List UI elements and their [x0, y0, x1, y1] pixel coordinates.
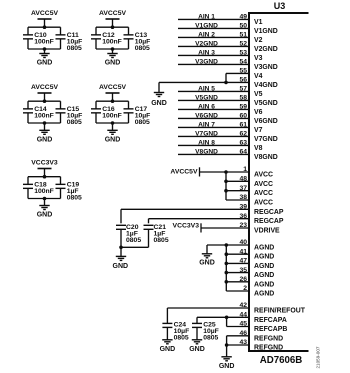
svg-text:60: 60 — [239, 113, 247, 120]
pin 43 REFGND — [227, 339, 284, 351]
pin 63 V8 — [178, 140, 263, 152]
svg-text:2: 2 — [243, 285, 247, 292]
pin 44 REFCAPA — [197, 312, 287, 324]
svg-text:100nF: 100nF — [34, 113, 54, 120]
svg-text:41: 41 — [239, 248, 247, 255]
pin 59 V6 — [178, 104, 263, 116]
ground — [105, 123, 121, 143]
power flag AVCC5V — [31, 10, 59, 27]
svg-text:35: 35 — [239, 267, 247, 274]
svg-text:V2GND: V2GND — [254, 46, 278, 53]
pin 60 V6GND — [178, 113, 278, 125]
svg-text:AIN 8: AIN 8 — [198, 140, 215, 147]
svg-text:V1GND: V1GND — [195, 23, 218, 30]
svg-text:46: 46 — [239, 330, 247, 337]
node AVCC5V supply tap — [170, 167, 249, 176]
capacitor C15 10µF 0805 — [56, 101, 83, 126]
svg-text:AIN 2: AIN 2 — [198, 32, 215, 39]
svg-text:55: 55 — [239, 68, 247, 75]
svg-text:0805: 0805 — [126, 237, 141, 244]
pin 51 V2 — [178, 32, 263, 44]
wire loop top — [28, 99, 61, 103]
pin 62 V7GND — [178, 131, 278, 143]
svg-text:43: 43 — [239, 339, 247, 346]
capacitor C16 100nF — [91, 101, 122, 123]
power flag AVCC5V — [99, 84, 127, 101]
pin 35 AGND — [239, 267, 274, 279]
svg-text:62: 62 — [239, 131, 247, 138]
svg-text:GND: GND — [219, 363, 235, 370]
pin 55 V4 — [226, 68, 263, 80]
svg-text:REFCAPB: REFCAPB — [254, 326, 287, 333]
wire loop top — [28, 175, 61, 179]
pin 37 AVCC — [239, 185, 273, 197]
capacitor C11 10µF 0805 — [56, 27, 83, 52]
svg-text:0805: 0805 — [203, 335, 218, 342]
svg-text:GND: GND — [37, 60, 53, 67]
svg-text:1: 1 — [243, 166, 247, 173]
svg-text:AVCC5V: AVCC5V — [99, 10, 127, 17]
wire loop top — [28, 25, 61, 29]
power flag VCC3V3 — [31, 160, 58, 177]
svg-text:AIN 3: AIN 3 — [198, 50, 215, 57]
wire loop bottom — [28, 197, 61, 201]
svg-text:58: 58 — [239, 95, 247, 102]
capacitor C14 100nF — [23, 101, 54, 123]
svg-text:21059-007: 21059-007 — [316, 346, 321, 368]
svg-text:56: 56 — [239, 77, 247, 84]
wire V4 to V4GND tie — [224, 73, 228, 84]
wire loop top — [96, 99, 129, 103]
svg-text:V7GND: V7GND — [254, 136, 278, 143]
pin 41 AGND — [239, 248, 274, 260]
pin 36 REGCAP — [149, 213, 284, 225]
ground for REGCAP caps — [113, 247, 129, 270]
svg-text:47: 47 — [239, 258, 247, 265]
svg-text:49: 49 — [239, 14, 247, 21]
svg-text:AIN 5: AIN 5 — [198, 86, 215, 93]
svg-text:V8: V8 — [254, 145, 263, 152]
svg-text:63: 63 — [239, 140, 247, 147]
svg-text:AGND: AGND — [254, 281, 274, 288]
svg-text:0805: 0805 — [154, 237, 169, 244]
wire AGND bus — [225, 243, 250, 291]
svg-text:GND: GND — [37, 212, 53, 219]
pin 61 V7 — [178, 122, 263, 134]
pin 1 AVCC — [243, 166, 273, 178]
capacitor C18 100nF — [23, 177, 54, 199]
wire REFGND tie — [225, 336, 229, 347]
svg-text:AVCC5V: AVCC5V — [99, 84, 127, 91]
pin 48 AVCC — [239, 176, 273, 188]
svg-text:VDRIVE: VDRIVE — [254, 228, 280, 235]
pin 45 REFCAPB — [227, 321, 288, 333]
svg-text:V7GND: V7GND — [195, 131, 218, 138]
pin 58 V5GND — [178, 95, 278, 107]
pin 23 VDRIVE — [239, 222, 280, 234]
svg-text:42: 42 — [239, 302, 247, 309]
power flag AVCC5V — [99, 10, 127, 27]
wire C20-C21 join — [119, 246, 148, 250]
svg-text:REFIN/REFOUT: REFIN/REFOUT — [254, 308, 306, 315]
svg-text:GND: GND — [151, 100, 167, 107]
svg-text:100nF: 100nF — [102, 39, 122, 46]
svg-text:0805: 0805 — [67, 195, 82, 202]
ground — [37, 49, 53, 67]
node VCC3V3 supply tap — [173, 222, 249, 232]
svg-text:45: 45 — [239, 321, 247, 328]
pin 64 V8GND — [178, 149, 278, 161]
svg-text:V1: V1 — [254, 19, 263, 26]
pin 54 V3GND — [178, 59, 278, 71]
svg-text:U3: U3 — [274, 1, 286, 11]
pin 50 V1GND — [178, 23, 278, 35]
svg-text:GND: GND — [160, 346, 176, 353]
svg-text:V2: V2 — [254, 37, 263, 44]
capacitor C17 10µF 0805 — [124, 101, 151, 126]
svg-text:50: 50 — [239, 23, 247, 30]
svg-text:GND: GND — [105, 60, 121, 67]
svg-text:AVCC: AVCC — [254, 172, 273, 179]
capacitor C13 10µF 0805 — [124, 27, 151, 52]
pin 56 V4GND — [159, 77, 278, 89]
capacitor C19 1µF 0805 — [56, 177, 83, 202]
svg-text:GND: GND — [199, 259, 215, 266]
svg-text:GND: GND — [189, 346, 205, 353]
svg-text:100nF: 100nF — [34, 188, 54, 195]
pin 26 AGND — [239, 276, 274, 288]
svg-text:AIN 1: AIN 1 — [198, 14, 215, 21]
svg-text:AIN 7: AIN 7 — [198, 122, 215, 129]
svg-text:V5: V5 — [254, 91, 263, 98]
svg-text:V8GND: V8GND — [195, 149, 218, 156]
svg-text:V3GND: V3GND — [195, 59, 218, 66]
svg-text:37: 37 — [239, 185, 247, 192]
svg-text:V8GND: V8GND — [254, 154, 278, 161]
capacitor C20 1uF 0805 — [116, 209, 141, 247]
svg-text:100nF: 100nF — [102, 113, 122, 120]
svg-text:AVCC5V: AVCC5V — [31, 10, 59, 17]
wire REFCAPA-REFCAPB tie — [225, 316, 229, 327]
svg-text:V2GND: V2GND — [195, 41, 218, 48]
svg-text:AVCC5V: AVCC5V — [31, 84, 59, 91]
svg-text:REGCAP: REGCAP — [254, 218, 284, 225]
svg-text:0805: 0805 — [67, 119, 82, 126]
svg-text:59: 59 — [239, 104, 247, 111]
svg-text:V1GND: V1GND — [254, 28, 278, 35]
svg-text:AVCC: AVCC — [254, 200, 273, 207]
svg-text:REFCAPA: REFCAPA — [254, 317, 287, 324]
capacitor C24 10uF 0805 — [162, 308, 189, 342]
svg-text:53: 53 — [239, 50, 247, 57]
pin 39 REGCAP — [121, 204, 284, 216]
svg-text:AVCC: AVCC — [254, 181, 273, 188]
svg-text:AD7606B: AD7606B — [260, 355, 303, 366]
svg-text:61: 61 — [239, 122, 247, 129]
svg-text:0805: 0805 — [135, 119, 150, 126]
svg-text:0805: 0805 — [174, 335, 189, 342]
svg-text:REFGND: REFGND — [254, 345, 283, 352]
svg-text:0805: 0805 — [67, 45, 82, 52]
svg-text:V3GND: V3GND — [254, 64, 278, 71]
svg-text:40: 40 — [239, 239, 247, 246]
svg-text:GND: GND — [105, 136, 121, 143]
power flag AVCC5V — [31, 84, 59, 101]
pin 42 REFIN/REFOUT — [167, 302, 305, 314]
ground — [37, 199, 53, 219]
wire AVCC bus — [224, 170, 249, 200]
pin 57 V5 — [178, 86, 263, 98]
pin 52 V2GND — [178, 41, 278, 53]
pin 2 AGND — [243, 285, 274, 297]
wire loop bottom — [28, 121, 61, 125]
svg-text:GND: GND — [113, 263, 129, 270]
svg-text:64: 64 — [239, 149, 247, 156]
svg-text:26: 26 — [239, 276, 247, 283]
pin 47 AGND — [239, 258, 274, 270]
svg-text:V4GND: V4GND — [254, 82, 278, 89]
svg-text:GND: GND — [37, 136, 53, 143]
svg-text:VCC3V3: VCC3V3 — [173, 222, 200, 229]
svg-text:48: 48 — [239, 176, 247, 183]
svg-text:V6GND: V6GND — [254, 118, 278, 125]
svg-text:V6GND: V6GND — [195, 113, 218, 120]
pin 46 REFGND — [227, 330, 284, 342]
op-amp U1 chip outline U3 AD7606B — [248, 13, 309, 351]
svg-text:V5GND: V5GND — [195, 95, 218, 102]
wire loop bottom — [96, 121, 129, 125]
capacitor C25 10uF 0805 — [192, 317, 219, 341]
svg-text:100nF: 100nF — [34, 39, 54, 46]
ground — [105, 49, 121, 67]
svg-text:44: 44 — [239, 312, 247, 319]
capacitor C10 100nF — [23, 27, 54, 49]
svg-text:38: 38 — [239, 194, 247, 201]
svg-text:AVCC5V: AVCC5V — [170, 169, 198, 176]
svg-text:V6: V6 — [254, 109, 263, 116]
svg-text:36: 36 — [239, 213, 247, 220]
ground for C25 — [189, 340, 205, 353]
svg-text:V3: V3 — [254, 55, 263, 62]
svg-text:AGND: AGND — [254, 254, 274, 261]
svg-text:AGND: AGND — [254, 245, 274, 252]
wire loop bottom — [96, 47, 129, 51]
wire loop top — [96, 25, 129, 29]
svg-text:VCC3V3: VCC3V3 — [31, 160, 58, 167]
svg-text:52: 52 — [239, 41, 247, 48]
ground — [37, 123, 53, 143]
svg-text:57: 57 — [239, 86, 247, 93]
ground for REFGND — [219, 345, 235, 370]
svg-text:0805: 0805 — [135, 45, 150, 52]
svg-text:39: 39 — [239, 204, 247, 211]
svg-text:AGND: AGND — [254, 291, 274, 298]
svg-text:V7: V7 — [254, 127, 263, 134]
pin 40 AGND — [239, 239, 274, 251]
svg-text:54: 54 — [239, 59, 247, 66]
svg-text:V5GND: V5GND — [254, 100, 278, 107]
svg-text:AGND: AGND — [254, 272, 274, 279]
capacitor C12 100nF — [91, 27, 122, 49]
svg-text:AIN 6: AIN 6 — [198, 104, 215, 111]
svg-text:AGND: AGND — [254, 263, 274, 270]
pin 53 V3 — [178, 50, 263, 62]
ground for V4/V4GND — [151, 82, 167, 106]
svg-text:V4: V4 — [254, 73, 263, 80]
pin 49 V1 — [178, 14, 263, 26]
capacitor C21 1uF 0805 — [144, 219, 169, 248]
pin 38 AVCC — [239, 194, 273, 206]
wire loop bottom — [28, 47, 61, 51]
ground for C24 — [160, 340, 176, 353]
svg-text:AVCC: AVCC — [254, 190, 273, 197]
svg-text:51: 51 — [239, 32, 247, 39]
ground for AGND — [199, 245, 226, 266]
svg-text:REGCAP: REGCAP — [254, 209, 284, 216]
svg-text:REFGND: REFGND — [254, 335, 283, 342]
